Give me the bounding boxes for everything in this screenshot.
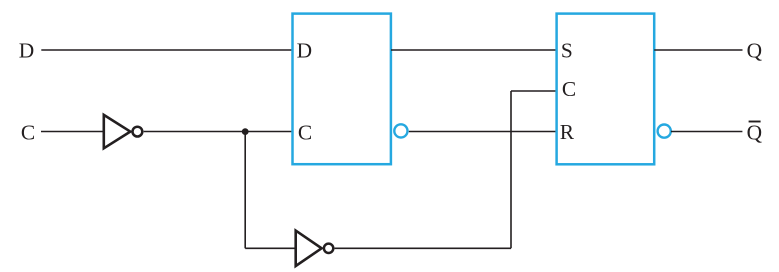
svg-text:C: C (562, 77, 576, 101)
riser wire up to U2 C level (510, 91, 512, 248)
svg-text:Q: Q (747, 121, 763, 145)
svg-text:S: S (561, 39, 573, 63)
wire junction down (244, 132, 246, 249)
wire D input to U1 (41, 49, 292, 51)
wire Q-bar output (671, 131, 742, 133)
wire bottom to inverter G2 (245, 247, 295, 249)
wire C input to inverter G1 (41, 131, 104, 133)
svg-text:R: R (560, 120, 575, 144)
svg-text:D: D (19, 39, 34, 63)
wire U1 top output to U2 S input (391, 49, 557, 51)
svg-text:C: C (298, 120, 312, 144)
wire U1 output to U2 R input (409, 131, 557, 133)
svg-text:Q: Q (747, 39, 763, 63)
latch U2 box (557, 14, 655, 165)
svg-text:D: D (297, 39, 312, 63)
inverter G1 triangle (104, 115, 131, 148)
svg-text:C: C (21, 120, 35, 144)
wire G2 output to riser (335, 247, 511, 249)
inverter G1 bubble (133, 127, 143, 137)
latch U1 box (293, 14, 391, 165)
overline of Q-bar (749, 121, 761, 123)
wire riser to U2 C input (511, 90, 557, 92)
wire Q output (654, 49, 742, 51)
inverter G2 triangle (296, 231, 322, 266)
U2 output bubble (658, 125, 671, 138)
U1 output bubble (394, 124, 407, 137)
junction node on C line (242, 128, 249, 135)
wire G1 output to U1 C input (144, 131, 293, 133)
inverter G2 bubble (324, 244, 333, 253)
